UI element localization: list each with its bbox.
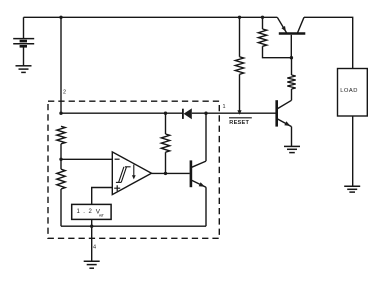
transistor Q2 (reset NPN) <box>277 100 292 146</box>
wire internal RESET line left segment <box>61 112 183 114</box>
dashed IC box U1 outline <box>48 101 219 238</box>
node D: inverting input junction dot <box>59 158 62 161</box>
wire collector of Q1 to load bend <box>304 17 353 68</box>
node J: Q1 base node dot <box>290 56 293 59</box>
node F: R3 top junction dot <box>164 112 167 115</box>
wire R3 bottom lead <box>165 152 167 173</box>
ground G2 (Q2 emitter) <box>284 146 300 152</box>
node A: supply branch dot <box>59 16 62 19</box>
node B: internal top node dot <box>59 112 62 115</box>
plus input glyph <box>114 185 120 191</box>
wire R2 to bottom rail <box>60 189 62 226</box>
node C: diode/collector junction dot <box>204 112 207 115</box>
wire plus input to reference <box>92 188 113 205</box>
svg-text:2: 2 <box>63 90 66 96</box>
svg-text:LOAD: LOAD <box>340 88 357 94</box>
wire bottom rail <box>61 225 206 227</box>
wire LOAD to ground <box>352 116 354 186</box>
transistor Q1 (PNP pass) <box>277 17 305 57</box>
wire R3 top lead <box>165 113 167 134</box>
ground G3 (load) <box>344 186 360 192</box>
wire inverting input <box>61 158 112 160</box>
wire top supply rail <box>24 16 278 18</box>
diode D1 <box>183 108 192 119</box>
wire pin2 branch down into IC <box>60 17 62 113</box>
svg-text:RESET: RESET <box>229 120 249 126</box>
resistor RB (Q1 base-emitter) <box>262 17 264 29</box>
resistor R1 <box>57 126 65 144</box>
wire RESET line right segment to Q2 base <box>192 112 276 114</box>
svg-text:4: 4 <box>93 245 96 251</box>
battery B1 <box>13 17 34 66</box>
arrowhead RA to reset line <box>237 110 241 114</box>
ground G1 (battery) <box>16 66 32 73</box>
minus input glyph <box>115 158 120 160</box>
resistor R3 (middle) <box>161 134 169 152</box>
reference source box 1.2V <box>72 204 111 219</box>
svg-text:1: 1 <box>223 104 226 110</box>
wire R1 to R2 <box>60 144 62 169</box>
node I: RB top dot <box>261 16 264 19</box>
resistor R2 <box>57 169 65 189</box>
node G: comparator output dot <box>164 172 167 175</box>
RESET label with overline <box>229 117 252 119</box>
node E: bottom rail / pin4 dot <box>90 225 93 228</box>
transistor Q3 (internal NPN) <box>191 113 206 226</box>
resistor RC (Q1 base drive) <box>291 58 293 75</box>
wire reference to ground pin 4 <box>91 219 93 261</box>
node H: RA top dot <box>238 16 241 19</box>
resistor RA (pull-up to RESET) <box>239 17 241 57</box>
ground G4 (pin 4) <box>84 261 100 268</box>
LOAD box <box>338 69 368 117</box>
wire comparator output to Q3 base <box>152 172 190 174</box>
svg-text:ref: ref <box>99 213 104 217</box>
hysteresis glyph <box>116 167 131 183</box>
op-amp U1A comparator triangle <box>112 152 151 195</box>
svg-text:1 . 2: 1 . 2 <box>77 209 93 215</box>
internal down arrow <box>133 165 135 176</box>
